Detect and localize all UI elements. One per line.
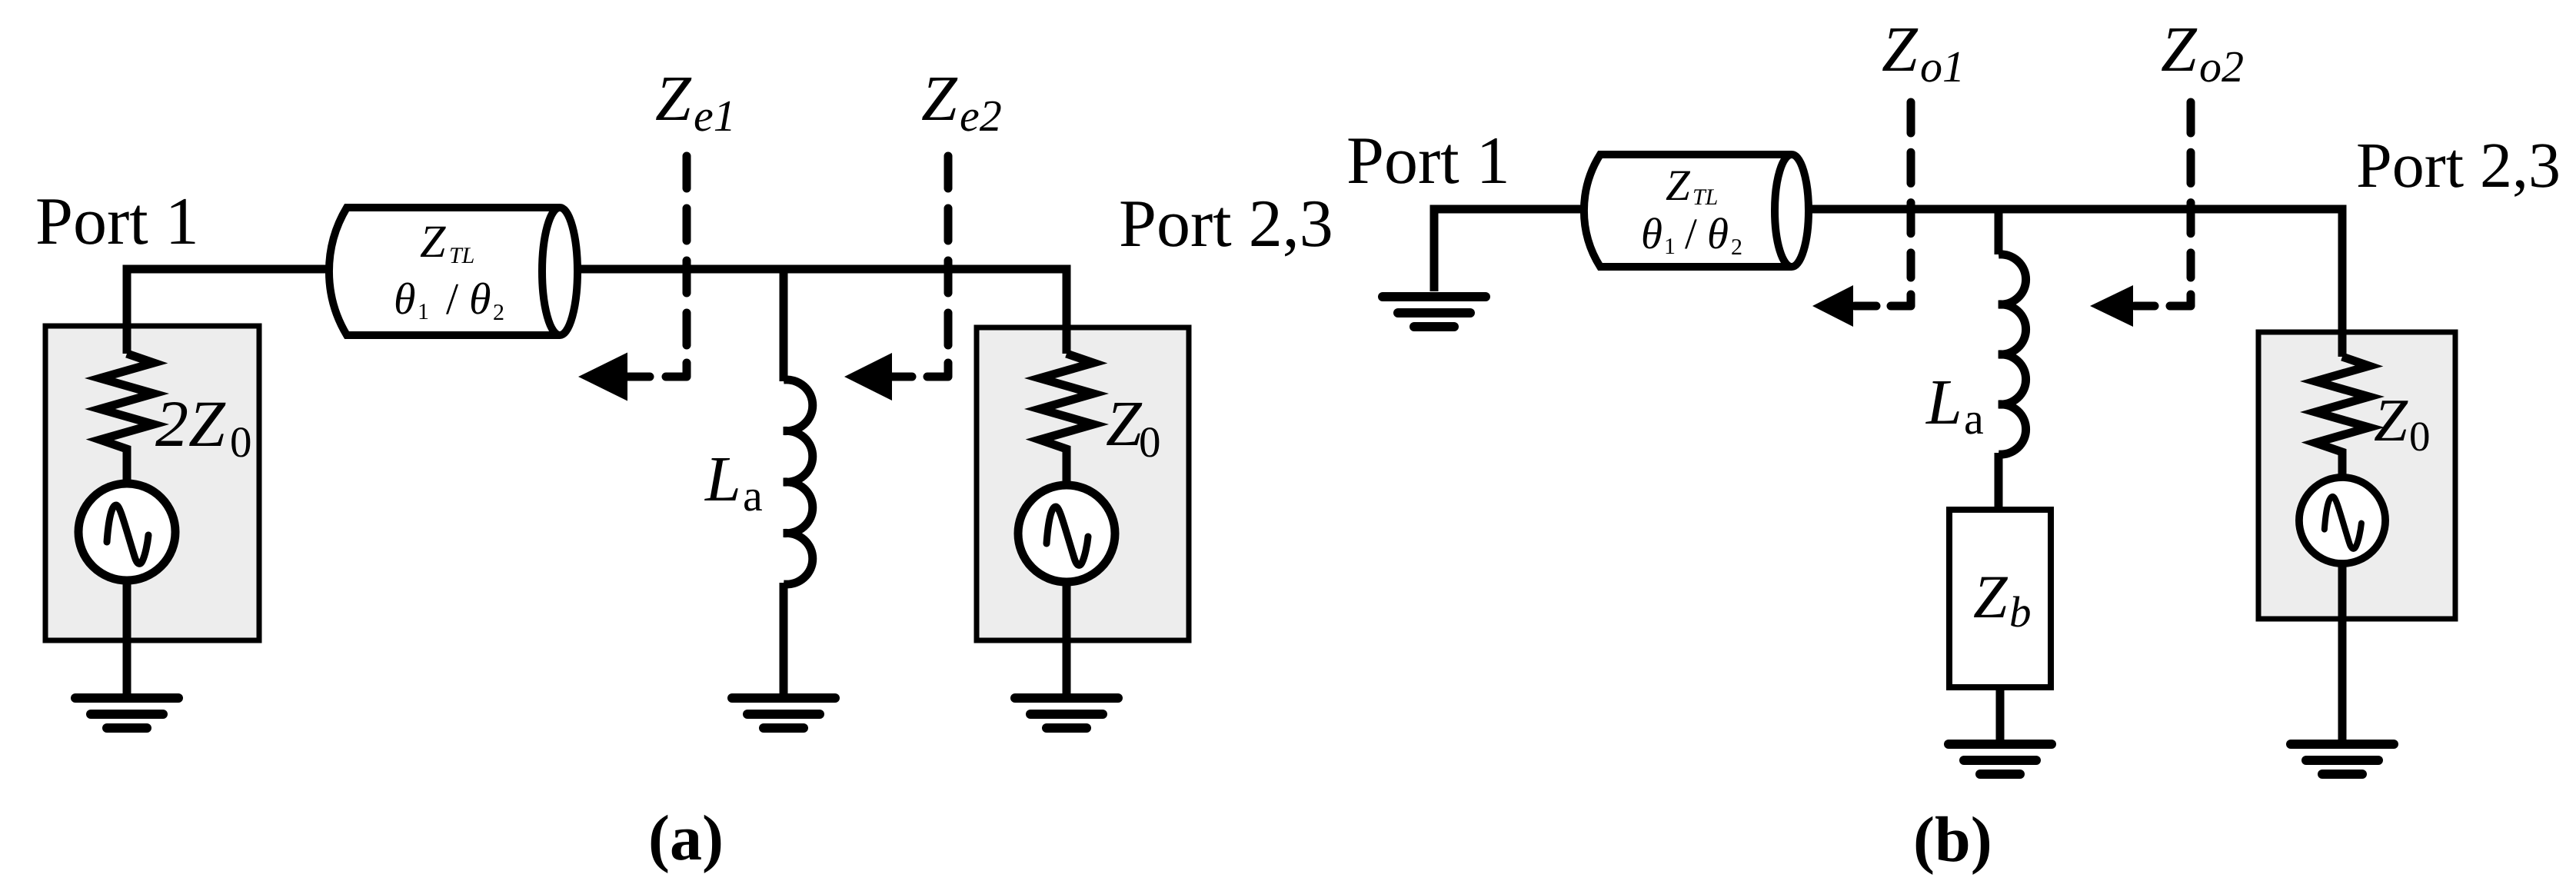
svg-text:Z: Z bbox=[2161, 14, 2198, 85]
svg-text:a: a bbox=[743, 470, 763, 520]
svg-text:0: 0 bbox=[2409, 413, 2431, 460]
svg-text:Z: Z bbox=[420, 216, 446, 267]
svg-text:Z: Z bbox=[1973, 564, 2009, 631]
svg-text:a: a bbox=[1964, 394, 1984, 444]
svg-text:Port 1: Port 1 bbox=[1346, 124, 1510, 198]
svg-text:θ: θ bbox=[394, 274, 416, 324]
svg-text:L: L bbox=[704, 444, 741, 515]
svg-text:2: 2 bbox=[493, 300, 504, 325]
svg-text:(a): (a) bbox=[648, 803, 724, 874]
svg-text:θ: θ bbox=[1707, 210, 1729, 258]
svg-text:Z: Z bbox=[655, 63, 692, 135]
svg-text:Port 2,3: Port 2,3 bbox=[1119, 187, 1333, 261]
svg-text:0: 0 bbox=[1139, 418, 1161, 467]
svg-text:e2: e2 bbox=[960, 91, 1002, 141]
svg-text:L: L bbox=[1925, 367, 1962, 438]
svg-text:b: b bbox=[2009, 588, 2032, 637]
svg-text:Port 2,3: Port 2,3 bbox=[2356, 130, 2561, 201]
svg-text:1: 1 bbox=[1664, 234, 1676, 259]
svg-text:TL: TL bbox=[1692, 185, 1718, 210]
svg-text:Z: Z bbox=[188, 387, 226, 460]
svg-text:θ: θ bbox=[469, 274, 491, 324]
svg-text:2: 2 bbox=[1731, 234, 1742, 260]
svg-text:Z: Z bbox=[2374, 387, 2408, 454]
svg-text:(b): (b) bbox=[1913, 804, 1992, 876]
svg-text:TL: TL bbox=[449, 243, 474, 268]
svg-text:o2: o2 bbox=[2199, 42, 2244, 91]
svg-text:Z: Z bbox=[1666, 161, 1691, 210]
svg-text:θ: θ bbox=[1641, 210, 1662, 258]
svg-text:1: 1 bbox=[418, 299, 429, 324]
svg-text:Z: Z bbox=[921, 63, 958, 135]
svg-text:2: 2 bbox=[155, 387, 188, 460]
svg-text:Z: Z bbox=[1106, 388, 1143, 460]
svg-text:e1: e1 bbox=[694, 91, 736, 141]
svg-text:Port 1: Port 1 bbox=[35, 185, 199, 259]
svg-text:Z: Z bbox=[1882, 14, 1919, 85]
svg-text:/: / bbox=[1685, 210, 1697, 258]
svg-text:o1: o1 bbox=[1920, 42, 1965, 91]
svg-text:0: 0 bbox=[230, 418, 252, 467]
svg-text:/: / bbox=[446, 274, 459, 324]
